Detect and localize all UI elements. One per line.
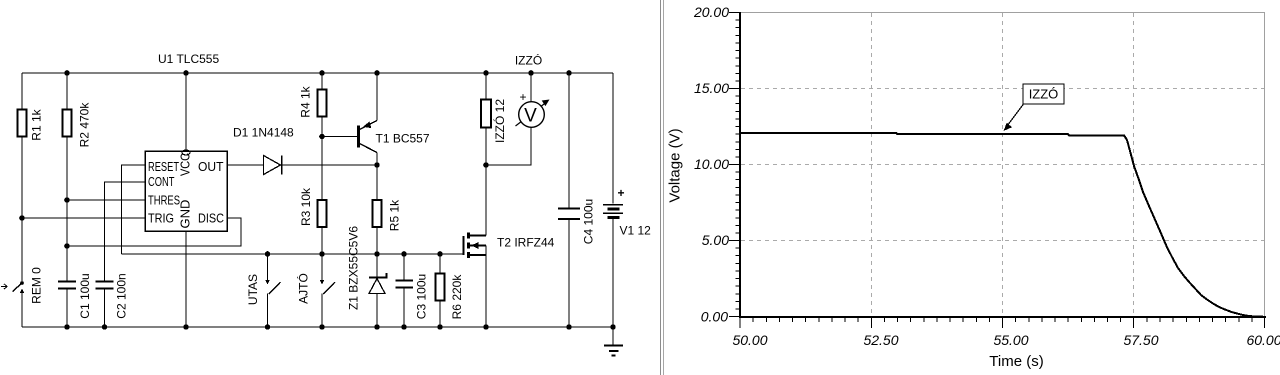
svg-text:52.50: 52.50: [863, 332, 898, 348]
diode D1 1N4148: [227, 126, 377, 175]
svg-text:V1 12: V1 12: [620, 224, 652, 238]
svg-text:VCC: VCC: [178, 153, 193, 176]
wire R1 to TRIG/REM0: [21, 137, 23, 283]
voltmeter V: [486, 73, 550, 165]
svg-text:REM 0: REM 0: [30, 267, 44, 304]
panel divider: [661, 0, 664, 375]
resistor R2: [63, 73, 92, 147]
svg-text:+: +: [519, 90, 526, 104]
svg-text:R5 1k: R5 1k: [388, 199, 402, 231]
chart y-axis: [729, 12, 740, 318]
resistor R5: [373, 165, 402, 254]
svg-text:RESET: RESET: [148, 159, 179, 174]
svg-text:+: +: [618, 186, 625, 200]
svg-text:IZZÓ: IZZÓ: [515, 53, 542, 68]
svg-text:C1 100u: C1 100u: [78, 273, 92, 318]
svg-text:Voltage (V): Voltage (V): [667, 128, 684, 202]
svg-text:50.00: 50.00: [732, 332, 767, 348]
svg-text:OUT: OUT: [198, 159, 224, 174]
pin THRES wire: [67, 199, 145, 201]
wire top supply rail: [22, 72, 613, 74]
svg-text:V: V: [524, 106, 537, 127]
svg-text:R3 10k: R3 10k: [299, 187, 313, 226]
svg-text:60.00: 60.00: [1246, 332, 1280, 348]
chart frame: [740, 13, 1265, 318]
svg-text:TRIG: TRIG: [148, 211, 174, 226]
svg-text:UTAS: UTAS: [246, 274, 260, 305]
svg-text:Time (s): Time (s): [989, 353, 1043, 370]
wire R3 to gate line: [321, 227, 323, 254]
svg-text:T2 IRFZ44: T2 IRFZ44: [497, 236, 555, 250]
capacitor C2: [96, 273, 129, 327]
capacitor C4: [558, 73, 596, 327]
chart gridlines: [741, 13, 1264, 316]
resistor R3: [299, 187, 327, 227]
svg-text:R6 220k: R6 220k: [450, 274, 464, 320]
svg-text:DISC: DISC: [198, 211, 224, 226]
svg-text:Z1 BZX55C5V6: Z1 BZX55C5V6: [347, 226, 361, 310]
svg-text:C3 100u: C3 100u: [415, 274, 429, 319]
wire R2 to C1 node: [66, 137, 68, 282]
op-amp U1 TLC555 body: [145, 52, 227, 231]
svg-text:55.00: 55.00: [993, 332, 1028, 348]
chart y axis labels: [693, 4, 729, 325]
chart y minor ticks: [736, 20, 741, 309]
switch AJTÓ: [296, 254, 336, 327]
ground: [604, 327, 623, 356]
label IZZÓ callout: [1004, 84, 1065, 131]
capacitor C3: [396, 254, 429, 327]
svg-text:0.00: 0.00: [701, 309, 728, 325]
battery V1 12: [603, 73, 651, 327]
svg-text:R4 1k: R4 1k: [299, 85, 313, 117]
svg-text:GND: GND: [178, 200, 193, 229]
svg-text:5.00: 5.00: [702, 232, 729, 248]
node gate line (RESET/switches/gate): [122, 253, 464, 255]
pin TRIG wire: [22, 217, 145, 219]
resistor R6: [436, 254, 465, 327]
switch UTAS: [246, 254, 281, 327]
chart x minor ticks: [753, 318, 1252, 322]
wire R4 to R3 (crosses OUT line): [321, 117, 323, 201]
svg-text:57.50: 57.50: [1123, 332, 1158, 348]
svg-text:T1 BC557: T1 BC557: [376, 132, 430, 146]
transistor T1 BC557: [322, 73, 430, 165]
svg-text:U1 TLC555: U1 TLC555: [158, 52, 219, 66]
curve IZZÓ trace: [740, 133, 1265, 317]
svg-text:C4 100u: C4 100u: [582, 199, 596, 244]
svg-text:R1 1k: R1 1k: [30, 108, 44, 140]
svg-text:CONT: CONT: [148, 174, 175, 189]
svg-text:IZZÓ: IZZÓ: [1029, 87, 1059, 102]
switch REM 0: [1, 267, 44, 327]
svg-text:15.00: 15.00: [694, 80, 729, 96]
svg-text:THRES: THRES: [148, 193, 180, 208]
svg-text:IZZÓ 12: IZZÓ 12: [492, 99, 507, 143]
lamp IZZÓ 12: [481, 53, 542, 166]
pin RESET wire: [122, 165, 146, 254]
transistor T2 IRFZ44: [464, 165, 555, 327]
zener Z1 BZX55C5V6: [347, 226, 387, 327]
pin VCC wire: [185, 73, 187, 151]
svg-text:AJTÓ: AJTÓ: [296, 273, 311, 304]
svg-text:D1 1N4148: D1 1N4148: [233, 126, 294, 140]
chart x-axis: [739, 317, 1266, 328]
svg-text:R2 470k: R2 470k: [78, 102, 92, 148]
svg-text:C2 100n: C2 100n: [115, 273, 129, 318]
resistor R4: [299, 73, 327, 118]
pin CONT wire: [105, 182, 146, 281]
resistor R1: [18, 73, 44, 141]
capacitor C1: [58, 273, 92, 327]
wire bottom ground rail: [22, 326, 613, 328]
pin GND wire: [185, 231, 187, 327]
svg-text:20.00: 20.00: [693, 4, 729, 20]
svg-text:10.00: 10.00: [694, 156, 729, 172]
pin DISC loop wire: [67, 218, 241, 246]
chart x axis labels: [732, 332, 1280, 348]
